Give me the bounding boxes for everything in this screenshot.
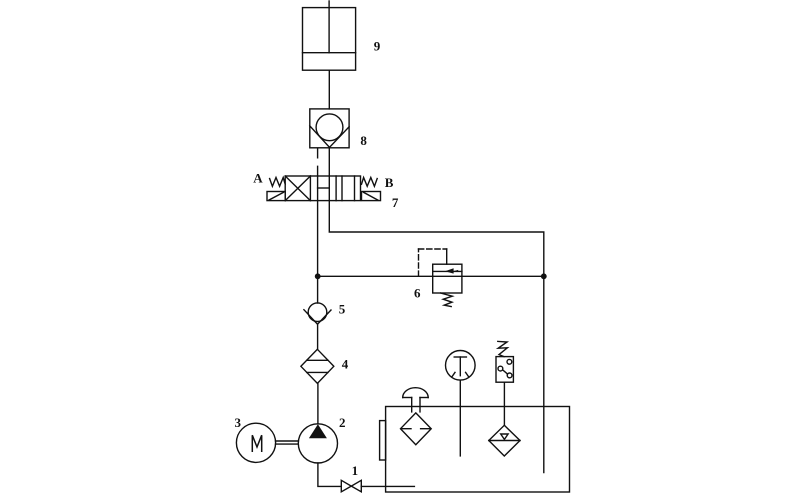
svg-text:A: A xyxy=(253,171,263,186)
svg-text:4: 4 xyxy=(342,357,349,372)
svg-text:8: 8 xyxy=(360,133,367,148)
svg-text:B: B xyxy=(385,175,394,190)
svg-text:6: 6 xyxy=(414,286,421,301)
svg-text:3: 3 xyxy=(235,415,242,430)
svg-text:2: 2 xyxy=(339,415,346,430)
svg-text:5: 5 xyxy=(339,302,346,317)
svg-text:1: 1 xyxy=(352,463,359,478)
svg-text:9: 9 xyxy=(374,39,381,54)
svg-text:7: 7 xyxy=(392,195,399,210)
